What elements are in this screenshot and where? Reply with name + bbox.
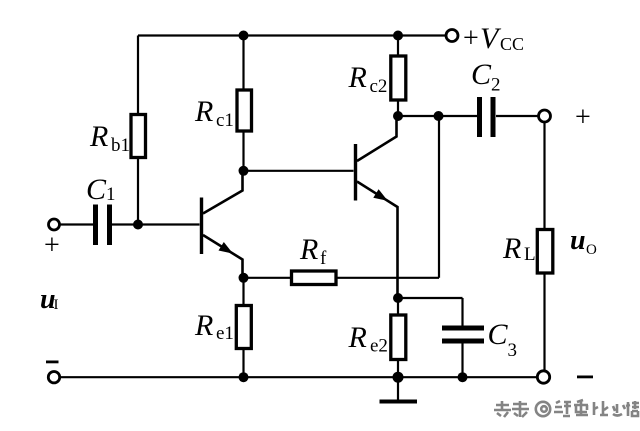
svg-text:u: u bbox=[570, 225, 586, 256]
svg-text:R: R bbox=[89, 120, 108, 153]
svg-text:3: 3 bbox=[508, 340, 518, 361]
svg-text:C: C bbox=[488, 318, 509, 351]
svg-text:c1: c1 bbox=[216, 110, 234, 131]
svg-text:R: R bbox=[194, 309, 213, 342]
svg-text:O: O bbox=[586, 242, 597, 258]
svg-text:+: + bbox=[575, 102, 591, 133]
svg-text:L: L bbox=[524, 244, 536, 265]
svg-text:e2: e2 bbox=[370, 336, 388, 357]
svg-text:CC: CC bbox=[500, 34, 524, 54]
svg-text:b1: b1 bbox=[111, 135, 130, 156]
svg-text:e1: e1 bbox=[216, 323, 234, 344]
svg-text:R: R bbox=[194, 95, 213, 128]
svg-text:+: + bbox=[44, 230, 60, 261]
svg-text:+: + bbox=[463, 23, 479, 54]
svg-text:f: f bbox=[320, 248, 327, 269]
svg-text:C: C bbox=[86, 173, 107, 206]
svg-text:R: R bbox=[348, 321, 367, 354]
svg-text:C: C bbox=[471, 58, 492, 91]
svg-text:I: I bbox=[54, 297, 59, 313]
svg-text:R: R bbox=[299, 233, 318, 266]
svg-text:2: 2 bbox=[491, 75, 501, 96]
svg-text:R: R bbox=[348, 61, 367, 94]
svg-text:R: R bbox=[502, 232, 521, 265]
svg-text:1: 1 bbox=[106, 184, 116, 205]
svg-text:c2: c2 bbox=[370, 76, 388, 97]
